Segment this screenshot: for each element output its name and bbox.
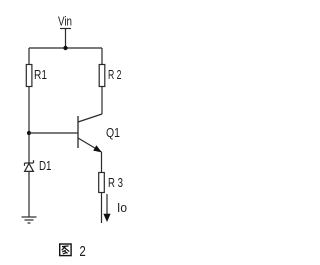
node junction top [63,46,67,50]
svg-text:D1: D1 [39,159,52,173]
svg-text:R 2: R 2 [108,68,122,82]
node base junction [27,131,31,135]
ground [22,217,37,223]
wire left lower [28,171,30,217]
wire top rail [29,47,102,49]
wire right upper [101,48,103,65]
wire base [29,132,78,134]
arrow Io current [103,194,110,222]
terminal Vin tick [60,28,71,30]
wire emitter vertical [101,152,103,173]
resistor R2 [99,65,105,87]
svg-text:R 3: R 3 [108,176,123,190]
resistor R3 [99,173,105,193]
caption figure 2 [60,244,71,256]
wire left upper [28,48,30,65]
svg-text:2: 2 [79,243,85,260]
wire collector vertical [101,87,103,115]
svg-text:Vin: Vin [58,14,72,28]
svg-text:Q1: Q1 [106,125,120,140]
diode D1 zener [25,160,34,171]
resistor R1 [26,65,32,87]
svg-text:Io: Io [117,201,127,215]
svg-text:R1: R1 [34,68,47,82]
wire left middle [28,87,30,164]
wire right lower [101,193,103,224]
transistor Q1 [78,114,102,152]
wire Vin stem [65,29,67,49]
